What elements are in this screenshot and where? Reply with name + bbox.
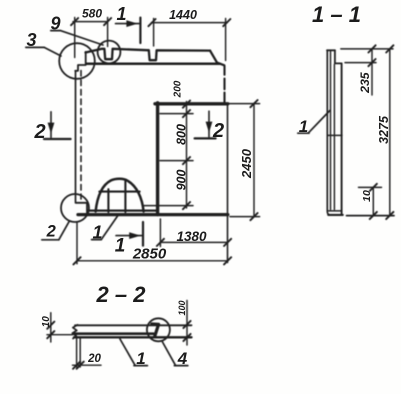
s22 bar bottom line — [74, 336, 192, 338]
svg-text:4: 4 — [177, 349, 188, 368]
s22 dim 10 line left — [50, 313, 52, 342]
opening top thick line — [155, 102, 228, 105]
s11 dim 3275 ticks — [386, 45, 393, 219]
svg-text:10: 10 — [361, 190, 373, 202]
bottom-left corner step — [76, 203, 88, 213]
s11 dim 10 extension — [359, 186, 382, 188]
s22 bar mid thick line — [74, 332, 154, 335]
svg-text:1: 1 — [136, 349, 145, 368]
s11 dim 235 ticks — [368, 45, 375, 66]
panel right edge upper dashed — [223, 66, 225, 102]
section mark 1 top: arrowhead — [126, 20, 137, 27]
s11 top extension line — [341, 48, 393, 50]
dim 2450 top extension — [229, 103, 260, 105]
s11 dim 235 line — [371, 49, 373, 95]
panel bottom inner line — [88, 209, 157, 211]
detail circle 2 — [61, 194, 89, 222]
chain ticks — [183, 101, 190, 210]
dim 580 extension left — [74, 18, 76, 58]
label 3 leader — [44, 47, 61, 56]
s11 label 1 leader — [309, 110, 331, 132]
svg-text:580: 580 — [82, 7, 102, 21]
svg-text:1: 1 — [116, 4, 126, 24]
s22 dim 10 extension — [47, 334, 73, 336]
svg-text:800: 800 — [175, 124, 189, 145]
dim 580 ticks — [71, 18, 111, 25]
dim 1440 extension right — [225, 19, 227, 61]
svg-text:2: 2 — [33, 121, 45, 143]
detail circle 9 — [98, 41, 121, 64]
label 9 shelf — [51, 30, 61, 32]
label 9 leader — [60, 31, 103, 45]
s22 dim 10 ticks — [47, 322, 54, 339]
label 3 shelf — [26, 46, 44, 48]
chain extension y160 — [160, 160, 193, 162]
section mark 2 left: cut stroke — [44, 138, 71, 140]
svg-text:1: 1 — [299, 117, 308, 136]
left edge solid — [75, 71, 77, 202]
dim 1440 ticks — [148, 19, 230, 26]
s11 top cap — [327, 49, 335, 51]
s11 shoulder — [335, 62, 342, 64]
grating vertical bar A — [107, 189, 109, 212]
svg-text:9: 9 — [50, 14, 60, 34]
detail circle 3 — [59, 43, 95, 79]
grating horizontal bar — [99, 191, 139, 193]
s22 dim 100 ticks — [183, 321, 190, 341]
svg-text:2850: 2850 — [132, 245, 167, 262]
s11 shoulder extension line — [345, 62, 376, 64]
label 1 shelf (grating) — [92, 239, 102, 241]
s11 left edge — [327, 50, 329, 215]
s11 dim 10 ticks — [370, 184, 377, 219]
dimension 580 line — [73, 21, 108, 23]
section mark 2 right: arrow line — [208, 111, 210, 137]
s22 detail circle — [147, 318, 170, 341]
section mark 1 top: cut stroke — [139, 18, 141, 43]
s11 right edge — [341, 63, 343, 214]
panel top-right chamfer — [210, 51, 224, 66]
svg-text:900: 900 — [175, 170, 189, 191]
section mark 2 right: cut stroke — [195, 137, 216, 139]
s11 bottom extension line — [347, 215, 395, 217]
s22 end key stroke — [152, 324, 159, 337]
svg-text:1: 1 — [115, 236, 126, 257]
section mark 1 top: arrow line — [116, 23, 140, 25]
s22 label 1 shelf — [134, 365, 147, 367]
svg-text:2: 2 — [212, 120, 224, 142]
dimension 1440 line — [151, 22, 227, 24]
s11 label 1 shelf — [298, 132, 309, 134]
svg-text:2450: 2450 — [239, 148, 254, 179]
s11 joint line — [327, 134, 342, 136]
svg-text:200: 200 — [173, 80, 184, 98]
svg-text:2 – 2: 2 – 2 — [96, 282, 147, 307]
section mark 2 left: arrowhead — [48, 123, 55, 134]
left edge hidden dashed — [80, 71, 82, 200]
section mark 1 bottom: cut stroke — [142, 222, 144, 246]
dim 2450 ticks — [250, 100, 257, 220]
svg-text:10: 10 — [41, 316, 52, 328]
top-left corner step — [75, 52, 86, 71]
panel top edge with two lifting slots — [86, 49, 211, 60]
s22 label 1 leader — [120, 339, 135, 365]
opening left edge thick — [156, 103, 159, 215]
svg-text:1440: 1440 — [169, 8, 197, 22]
dimension 2450 line — [253, 104, 255, 217]
opening chain dimension line vertical — [186, 102, 188, 209]
section mark 2 right: arrowhead — [206, 122, 213, 133]
svg-text:235: 235 — [358, 72, 372, 94]
section mark 2 left: arrow line — [50, 112, 52, 138]
s11 bottom inner — [329, 210, 341, 212]
svg-text:100: 100 — [177, 300, 187, 315]
dim 2850 extension left — [76, 223, 78, 264]
s22 label 4 shelf — [174, 365, 187, 367]
s22 bar top line — [75, 324, 192, 326]
panel right edge lower / extension line — [227, 104, 229, 263]
dimension 1380 line — [160, 241, 227, 243]
chain extension y113 — [160, 113, 193, 115]
panel bottom edge thick — [78, 213, 228, 216]
svg-text:1 – 1: 1 – 1 — [312, 2, 361, 27]
dim 2850 ticks — [73, 257, 231, 264]
dim 580 extension right — [107, 18, 109, 47]
svg-text:1380: 1380 — [176, 229, 207, 244]
label 1 leader (grating) — [101, 216, 118, 240]
label 2 shelf bottom-left — [42, 239, 59, 241]
svg-text:2: 2 — [46, 222, 56, 240]
s11 dim 10 line — [372, 187, 374, 215]
panel inner top line — [87, 63, 220, 66]
grating vertical bar B — [124, 180, 126, 212]
chain extension y205 — [144, 205, 193, 207]
dim 2450 bottom extension — [230, 216, 260, 218]
dim 1440 extension left — [153, 19, 155, 47]
s22 left break zigzag — [72, 325, 77, 339]
s11 dim 3275 line — [389, 49, 391, 216]
dimension 2850 line — [77, 260, 228, 262]
s11 rib right side — [334, 50, 336, 63]
svg-text:3275: 3275 — [377, 115, 391, 144]
label 2 leader — [59, 221, 70, 240]
svg-text:1: 1 — [92, 222, 102, 242]
section mark 1 bottom: arrowhead — [129, 232, 140, 239]
s22 label 4 leader — [163, 342, 176, 365]
s22 dim 20 extensions — [77, 339, 81, 368]
s22 dim 100 line — [186, 301, 188, 346]
svg-text:20: 20 — [87, 353, 101, 365]
s22 dim 20 line — [73, 364, 102, 366]
s22 dim 20 ticks — [73, 362, 84, 369]
dim 1380 ticks — [157, 239, 231, 246]
s11 inner layer line — [331, 52, 335, 210]
svg-text:3: 3 — [26, 30, 36, 50]
s11 bottom outer — [328, 214, 343, 216]
arched grating item 1 — [96, 179, 144, 212]
dim 1380 extension left — [159, 219, 161, 247]
section mark 1 bottom: arrow line — [116, 235, 142, 237]
